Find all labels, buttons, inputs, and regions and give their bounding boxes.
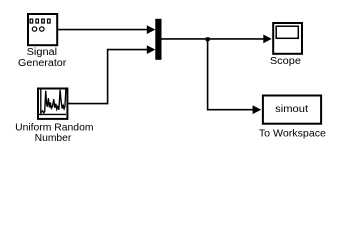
svg-text:Number: Number — [35, 133, 73, 144]
svg-text:To Workspace: To Workspace — [259, 129, 326, 140]
svg-text:Scope: Scope — [270, 56, 301, 67]
svg-text:simout: simout — [275, 103, 308, 115]
svg-text:Signal: Signal — [27, 47, 58, 58]
svg-text:Uniform Random: Uniform Random — [15, 123, 93, 134]
svg-text:Generator: Generator — [18, 58, 67, 69]
